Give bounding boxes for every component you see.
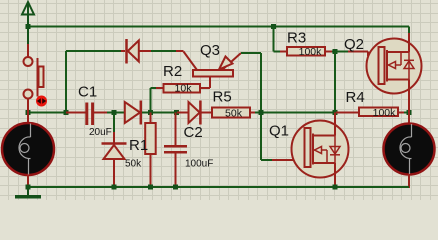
- node R1/R2: [148, 110, 153, 115]
- wire to D2: [107, 112, 125, 114]
- wire main row: [27, 112, 66, 114]
- wire R3 drop: [274, 27, 281, 52]
- wire ground rail: [28, 186, 409, 188]
- wire C2 bottom pin: [175, 153, 177, 187]
- node R5 gate: [259, 110, 264, 115]
- wire lamp2 bottom pin: [408, 174, 410, 188]
- wire D4 to ground: [113, 159, 115, 187]
- svg-text:C2: C2: [184, 124, 203, 141]
- resistor R2: [164, 84, 201, 93]
- diode D4: [102, 144, 127, 160]
- resistor R5: [212, 108, 250, 118]
- wire R1 bottom pin: [150, 154, 152, 187]
- svg-text:10k: 10k: [175, 83, 193, 95]
- wire lamp1 bottom pin: [27, 175, 29, 188]
- svg-text:R2: R2: [163, 63, 182, 80]
- MOSFET Q1: [292, 121, 349, 178]
- wire R1 top pin: [150, 113, 152, 124]
- node rail Q1: [333, 185, 338, 190]
- node left main: [26, 110, 31, 115]
- wire D3 anode pin: [177, 112, 189, 114]
- transistor Q3: [184, 52, 242, 89]
- svg-text:Q3: Q3: [200, 42, 220, 59]
- diode D2: [125, 101, 141, 125]
- wire C2 top pin: [175, 113, 177, 146]
- node power rail left: [26, 24, 31, 29]
- diode D3: [189, 101, 201, 125]
- svg-text:R1: R1: [129, 137, 148, 154]
- wire lamp2 top pin: [408, 113, 410, 125]
- resistor R4: [359, 108, 398, 117]
- actuator marker: [36, 96, 47, 107]
- node C1 left: [64, 110, 69, 115]
- svg-text:Q2: Q2: [344, 36, 364, 53]
- node C2: [174, 110, 179, 115]
- power terminal: [22, 2, 34, 44]
- wire Q2 gate run: [335, 51, 348, 53]
- wire Q2 source pin: [408, 94, 410, 113]
- wire R4 right pin: [398, 112, 404, 114]
- svg-text:R5: R5: [213, 89, 232, 106]
- button SW1: [24, 44, 44, 113]
- svg-text:R3: R3: [287, 30, 306, 47]
- wire R5 to R4: [255, 112, 335, 114]
- node rail C2: [173, 185, 178, 190]
- wire R5 right pin: [250, 112, 255, 114]
- svg-text:100k: 100k: [299, 46, 323, 58]
- wire R3 right pin: [325, 51, 332, 53]
- lamp L1: [2, 123, 54, 175]
- svg-text:100k: 100k: [373, 107, 397, 119]
- wire D2 to C2 node: [142, 112, 177, 114]
- wire Q2 drain pin: [408, 27, 410, 34]
- wire R3 node column: [334, 52, 336, 113]
- wire corner column x66: [66, 51, 121, 113]
- node rail D4: [112, 185, 117, 190]
- ground: [15, 187, 41, 197]
- resistor R3: [287, 47, 325, 56]
- svg-text:100uF: 100uF: [185, 159, 213, 170]
- node R3 right: [333, 49, 338, 54]
- wire lamp1 top pin: [27, 113, 29, 125]
- wire Q1 gate pin: [272, 159, 305, 161]
- wire D1 to Q3 collector: [139, 50, 151, 52]
- node D4 tap: [112, 110, 117, 115]
- node R4 right: [407, 110, 412, 115]
- wire Q3 emitter net: [241, 53, 272, 160]
- MOSFET Q2: [367, 39, 422, 94]
- svg-text:C1: C1: [78, 84, 97, 101]
- wire R2 left pin: [156, 87, 164, 89]
- node drain cross: [333, 110, 338, 115]
- wire D1 left pin: [121, 50, 125, 52]
- wire C1 right pin: [94, 112, 108, 114]
- wire top rail: [28, 26, 409, 28]
- svg-text:R4: R4: [346, 89, 365, 106]
- resistor R1: [145, 123, 156, 154]
- wire D4 column: [113, 114, 115, 132]
- capacitor C1: [87, 103, 93, 126]
- wire Q1 source pin: [334, 178, 336, 188]
- svg-text:50k: 50k: [225, 107, 243, 119]
- node rail left: [26, 185, 31, 190]
- svg-text:Q1: Q1: [269, 123, 289, 140]
- node rail R1: [148, 185, 153, 190]
- svg-text:20uF: 20uF: [89, 127, 112, 138]
- lamp L2: [384, 124, 435, 175]
- wire R4 left pin: [335, 112, 359, 114]
- wire Q1 drain pin: [334, 113, 336, 123]
- wire C1 left pin: [66, 112, 86, 114]
- wire R2 drop: [151, 88, 157, 113]
- wire D3 to R5: [202, 112, 213, 114]
- wire R3 left pin: [280, 51, 287, 53]
- node R3 feed: [271, 24, 276, 29]
- capacitor C2: [164, 146, 187, 152]
- diode D1: [127, 39, 139, 64]
- svg-text:50k: 50k: [125, 159, 142, 170]
